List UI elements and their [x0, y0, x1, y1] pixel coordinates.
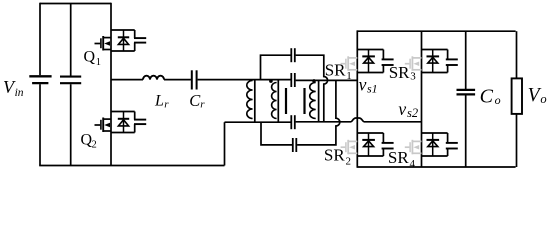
svg-text:o: o: [540, 92, 546, 106]
transistor SR4 channel (grey): [405, 140, 422, 155]
transistor Q1: [95, 30, 147, 51]
label Q1: [84, 49, 101, 68]
transistor Q2: [95, 112, 147, 133]
capacitor Cin: [60, 4, 81, 166]
svg-text:SR: SR: [324, 146, 345, 165]
diode and capacitor SR1: [357, 50, 393, 73]
battery Vin: [29, 76, 51, 83]
label Cr: [189, 91, 205, 111]
svg-text:Q: Q: [84, 49, 96, 66]
svg-text:1: 1: [346, 70, 352, 82]
diode and capacitor SR2: [357, 133, 393, 156]
capacitor row2 blocking: [291, 73, 295, 87]
capacitor row3 blocking: [291, 115, 295, 129]
transistor SR2 channel (grey): [341, 140, 358, 155]
capacitor row4 blocking: [293, 138, 297, 152]
wire left rail lower: [39, 84, 41, 165]
svg-text:2: 2: [92, 140, 97, 151]
label Vo: [528, 85, 547, 106]
transistor SR1 channel (grey): [341, 56, 358, 71]
svg-text:s1: s1: [367, 81, 378, 95]
transistor SR3 channel (grey): [405, 56, 422, 71]
wire row4 riser left: [261, 122, 292, 145]
svg-text:s2: s2: [407, 106, 418, 120]
node dot secondary winding: [312, 79, 316, 83]
wire midpoint to Lr: [111, 79, 143, 81]
label SR2: [324, 146, 351, 168]
label Lr: [154, 93, 169, 111]
wire secondary bottom rail: [357, 166, 516, 168]
wire Lr to Cr: [164, 79, 191, 81]
transformer core left bar: [285, 88, 287, 114]
svg-text:1: 1: [96, 57, 101, 68]
wire half-bridge rail: [110, 3, 112, 166]
label vs2: [398, 99, 418, 120]
svg-text:v: v: [359, 74, 367, 94]
inductor Lr: [143, 76, 164, 80]
wire row1 right with hop over row2: [296, 55, 328, 122]
svg-text:SR: SR: [388, 148, 409, 167]
svg-text:v: v: [398, 99, 406, 119]
resistor load: [512, 31, 522, 167]
wire top rail primary: [40, 3, 111, 5]
svg-text:2: 2: [346, 156, 352, 168]
winding Lm (transformer left winding): [247, 80, 255, 123]
svg-text:o: o: [495, 93, 501, 107]
diode and capacitor SR3: [422, 50, 458, 73]
diode and capacitor SR4: [422, 133, 458, 156]
label Vin: [3, 77, 24, 99]
wire row3 right with hop over vs1 leg: [296, 118, 422, 122]
svg-text:r: r: [164, 99, 169, 111]
svg-text:SR: SR: [325, 60, 346, 79]
wire bottom rail primary: [39, 165, 224, 167]
wire vs1 leg: [356, 30, 358, 167]
wire primary bottom riser: [224, 122, 226, 165]
label Q2: [81, 132, 97, 151]
wire vs2 leg: [421, 31, 423, 167]
winding secondary T1: [310, 80, 319, 121]
svg-text:4: 4: [410, 158, 416, 170]
svg-text:SR: SR: [389, 63, 410, 82]
label SR1: [325, 60, 352, 81]
svg-text:C: C: [480, 86, 494, 108]
wire left rail upper: [39, 3, 41, 76]
svg-text:r: r: [200, 99, 205, 111]
wire riser row1 left: [261, 55, 291, 79]
wire Cr to transformer (primary top): [198, 79, 292, 81]
svg-text:3: 3: [410, 71, 416, 83]
svg-text:L: L: [154, 93, 164, 110]
capacitor Cr: [192, 70, 197, 89]
label SR3: [389, 63, 417, 83]
label SR4: [388, 148, 416, 170]
label Co: [480, 86, 501, 108]
wire secondary top rail: [357, 30, 515, 32]
wire primary bottom (row3 left): [225, 121, 292, 123]
node dot primary winding: [269, 79, 273, 83]
winding primary T1: [272, 80, 279, 123]
capacitor Co: [457, 31, 476, 167]
wire row4 right with hop over row3: [297, 80, 340, 144]
transformer core right bar: [303, 88, 305, 114]
svg-text:in: in: [15, 87, 24, 99]
label vs1: [359, 74, 378, 95]
capacitor row1 blocking: [291, 48, 295, 62]
wire row2 right (to vs1 leg): [296, 79, 358, 81]
